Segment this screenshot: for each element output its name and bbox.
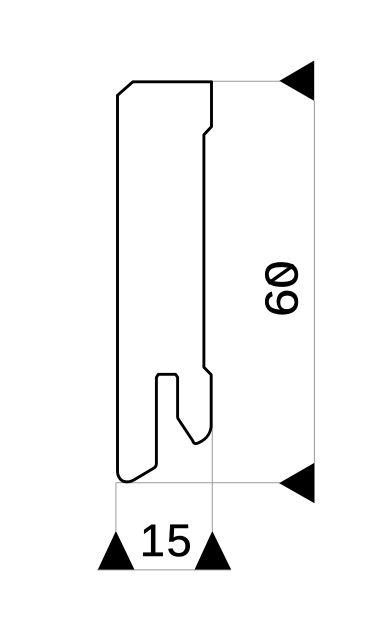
dimension line vertical (60 dim, between arrow bases)	[313, 101, 315, 463]
svg-text:5: 5	[167, 515, 192, 566]
extension line left (15 dim)	[115, 483, 117, 531]
arrowhead right (15 dim)	[195, 531, 232, 570]
arrowhead bottom (60 dim)	[279, 463, 314, 503]
svg-text:1: 1	[140, 515, 165, 566]
extension line bottom (from profile bottom-left to lower arrow tip)	[116, 482, 280, 484]
extension line top (from profile top-right corner to arrow tip)	[213, 80, 280, 82]
dimension base line (15 dim, between arrow bases)	[97, 569, 231, 571]
arrowhead left (15 dim)	[98, 531, 134, 570]
arrowhead top (60 dim)	[279, 61, 314, 101]
skirting board profile outline	[118, 82, 212, 482]
dimension text 60 (rotated, slashed zero)	[256, 260, 308, 317]
svg-text:60: 60	[256, 260, 308, 317]
extension line right (15 dim, below tooth)	[211, 425, 213, 531]
